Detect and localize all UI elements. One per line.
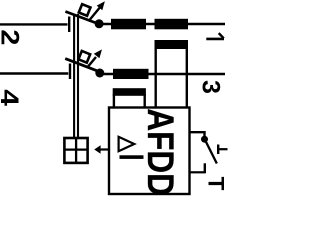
test button blade	[205, 140, 217, 164]
contact pole 1-2 blade	[65, 12, 101, 26]
AFDD unit box	[109, 108, 190, 195]
magnetic trip element pole 1	[155, 19, 189, 30]
contact pole 1-2 fixed bar	[68, 17, 70, 33]
contact pole 3-4 pivot dot	[95, 69, 104, 78]
contact pole 1-2 latch flag	[79, 4, 91, 16]
solenoid coil pole 3	[113, 88, 146, 96]
thermal trip element pole 3	[113, 69, 149, 79]
test button fixed bar	[217, 145, 219, 155]
wire terminal 2	[0, 23, 68, 25]
contact pole 1-2 trip arrow	[89, 8, 100, 22]
test button wire from box	[190, 132, 205, 136]
test button pivot dot	[201, 136, 208, 143]
mechanical linkage double line	[73, 14, 75, 138]
contact pole 1-2 pivot dot	[95, 19, 104, 28]
test button wire to edge	[218, 148, 227, 150]
contact pole 3-4 blade	[65, 59, 101, 73]
test circuit terminal bar	[204, 163, 206, 173]
wire terminal 4	[0, 72, 68, 74]
svg-text:T: T	[204, 177, 229, 191]
svg-text:3: 3	[197, 80, 225, 94]
thermal trip element pole 1	[111, 19, 146, 30]
delta-I triangle	[119, 137, 135, 151]
trip signal arrow to release	[100, 148, 110, 150]
contact pole 3-4 fixed bar	[69, 64, 71, 80]
svg-text:AFDD: AFDD	[139, 108, 180, 195]
delta-I bar	[120, 155, 144, 159]
current transformer square	[64, 138, 87, 163]
contact pole 3-4 latch flag	[78, 51, 90, 63]
solenoid coil pole 1	[155, 40, 189, 49]
wire terminal 1	[103, 23, 225, 25]
svg-text:2: 2	[0, 29, 24, 45]
contact pole 3-4 trip arrow	[88, 57, 96, 67]
test circuit return wire	[190, 171, 205, 173]
svg-text:4: 4	[0, 89, 24, 106]
wire terminal 3	[103, 73, 225, 75]
label 1	[206, 38, 224, 41]
